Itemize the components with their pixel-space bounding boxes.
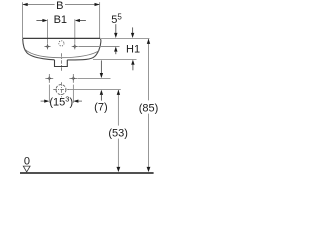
drain centerline	[60, 53, 62, 71]
drain circle crosshair vertical	[60, 82, 62, 97]
basin bottom leader line to the right	[93, 59, 137, 61]
dimension (15 3): extension line right	[72, 85, 74, 103]
dimension (15 3): right tail and arrowhead	[78, 100, 82, 102]
dimension (7): upper arrowhead and tail	[100, 60, 102, 73]
drain rectangle	[55, 60, 68, 67]
fixing hole cross right	[69, 74, 77, 83]
dimension B1: left tail and arrowhead	[36, 20, 42, 22]
washbasin rim top edge	[23, 37, 101, 39]
leader from fixing holes	[78, 77, 111, 79]
washbasin right side outline	[67, 39, 101, 60]
tap hole cross right	[72, 44, 78, 50]
dimension (85): dimension line	[148, 39, 150, 101]
dimension 5 5: upper arrowhead and stem	[115, 24, 117, 33]
dimension (7): lower arrowhead and tail	[100, 90, 103, 95]
leader from right tap hole	[78, 46, 119, 48]
dimension B1: extension line left	[47, 19, 49, 43]
fixing hole cross left	[45, 74, 53, 83]
dimension H1: lower arrowhead and tail	[131, 60, 134, 65]
dimension B: dimension line	[23, 4, 55, 6]
dimension (85): top arrowhead	[147, 39, 150, 44]
floor line	[20, 172, 154, 174]
svg-text:(153): (153)	[49, 94, 73, 108]
svg-text:B1: B1	[54, 14, 67, 26]
leader from drain circle	[69, 89, 121, 91]
svg-text:H1: H1	[126, 43, 140, 55]
dimension B: extension line right	[99, 2, 101, 38]
dimension (15 3): left tail and arrowhead	[41, 100, 45, 102]
dimension B1: extension line right	[74, 19, 76, 43]
rim leader line to the right	[101, 37, 150, 39]
washbasin inner bowl line	[25, 50, 99, 58]
svg-text:(85): (85)	[139, 102, 159, 114]
dimension (53): bottom arrowhead	[117, 167, 121, 172]
svg-text:B: B	[56, 0, 63, 12]
dimension H1: upper arrowhead and stem	[132, 27, 134, 33]
dimension B1: right tail and arrowhead	[80, 20, 86, 22]
dimension (53): top arrowhead	[117, 90, 120, 95]
dimension 5 5: lower arrowhead and tail	[114, 47, 117, 52]
tap hole cross left	[44, 44, 50, 50]
dimension B: left arrowhead	[23, 3, 28, 6]
drain trap circle (dash-dot)	[56, 85, 66, 95]
dimension B: right arrowhead	[95, 3, 100, 6]
svg-text:(53): (53)	[108, 128, 128, 140]
optional tap hole (dotted circle)	[59, 41, 64, 46]
washbasin left side outline	[23, 39, 55, 60]
dimension (15 3): extension line left	[48, 85, 50, 103]
svg-text:(7): (7)	[94, 101, 107, 113]
svg-text:0: 0	[24, 156, 30, 168]
dimension (53): dimension line	[117, 90, 119, 126]
dimension (85): bottom arrowhead	[147, 167, 151, 172]
drain circle crosshair horizontal	[53, 89, 69, 91]
dimension B: extension line left	[22, 2, 24, 38]
datum triangle	[23, 166, 30, 172]
